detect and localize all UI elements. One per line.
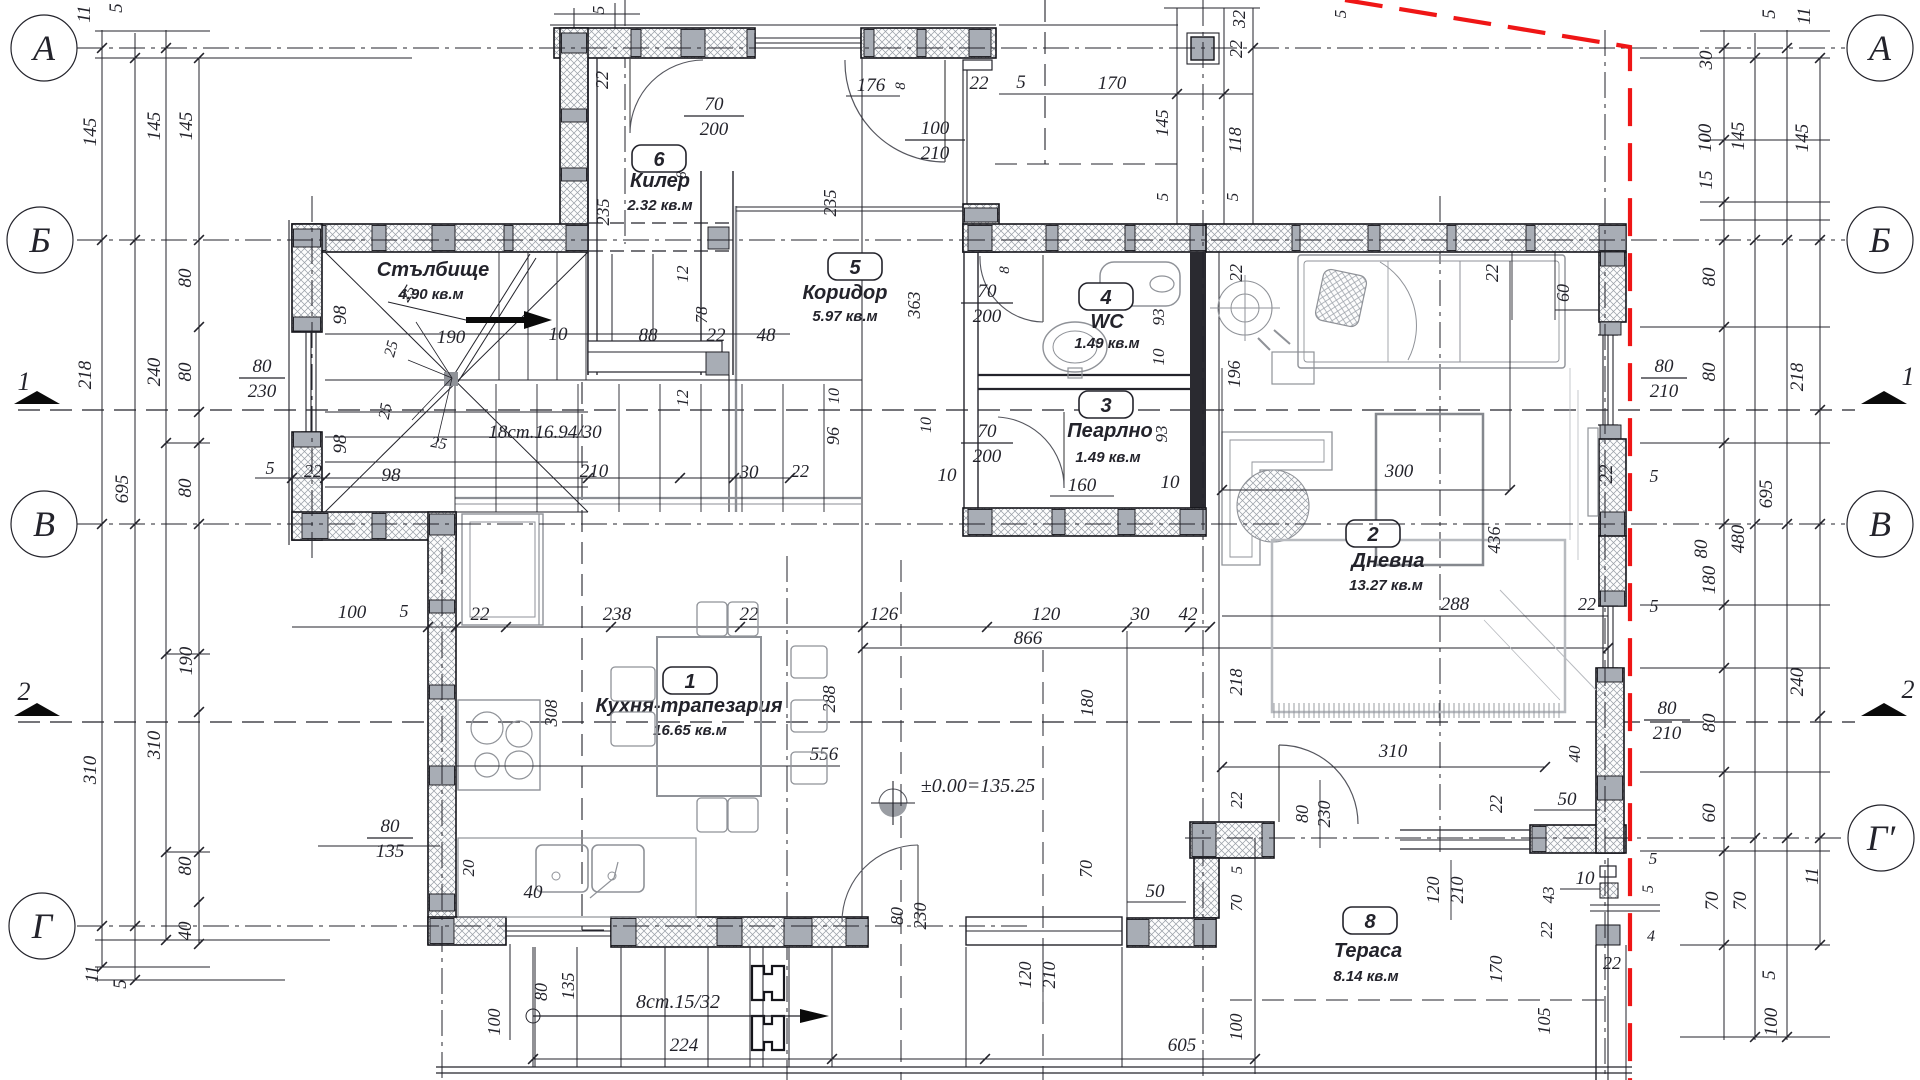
svg-text:196: 196: [1224, 361, 1244, 388]
svg-text:200: 200: [973, 306, 1002, 327]
svg-text:50: 50: [1558, 789, 1578, 810]
svg-text:310: 310: [80, 755, 101, 785]
right wall segment 3: [1599, 536, 1626, 606]
external stairs direction line: [533, 1015, 800, 1017]
svg-text:40: 40: [175, 921, 196, 941]
curtain lines right: [1569, 368, 1571, 540]
svg-text:5: 5: [1650, 596, 1659, 616]
svg-text:5: 5: [1759, 970, 1780, 980]
svg-text:98: 98: [330, 434, 351, 454]
svg-text:4: 4: [1647, 928, 1655, 945]
kitchen bottom window: [506, 925, 611, 927]
svg-text:436: 436: [1484, 527, 1504, 554]
svg-text:6: 6: [653, 149, 665, 171]
staircase stringer double diagonal: [452, 254, 530, 378]
svg-text:80: 80: [1655, 356, 1675, 377]
dim 866 line: [863, 647, 1608, 649]
svg-text:40: 40: [1565, 745, 1584, 763]
closet under Kiler: [588, 341, 722, 372]
svg-text:22: 22: [1482, 264, 1502, 282]
parapet thin wall terrace left: [966, 917, 1122, 945]
svg-text:60: 60: [1699, 803, 1720, 823]
right dimension chain lines: [1723, 30, 1725, 1040]
svg-text:363: 363: [904, 292, 924, 320]
svg-text:210: 210: [921, 143, 950, 164]
vertical axis x312 dash-dot: [311, 196, 313, 560]
svg-text:30: 30: [739, 462, 760, 483]
staircase treads horizontal: [325, 411, 588, 413]
svg-text:210: 210: [1653, 723, 1682, 744]
svg-text:22: 22: [1537, 921, 1556, 939]
svg-text:1: 1: [684, 671, 695, 693]
svg-text:22: 22: [1486, 795, 1506, 813]
svg-text:100: 100: [484, 1009, 504, 1036]
staircase center post: [444, 372, 458, 386]
right wall segment 1: [1599, 252, 1626, 322]
square table on rug: [1376, 414, 1483, 565]
corridor right open edge lines: [962, 70, 964, 208]
long-dash vertical x901: [900, 560, 902, 1080]
svg-text:70: 70: [1730, 891, 1751, 911]
svg-text:288: 288: [819, 686, 839, 713]
svg-text:5: 5: [589, 6, 608, 15]
svg-text:5: 5: [849, 257, 861, 279]
svg-text:В: В: [33, 504, 55, 544]
svg-text:218: 218: [1226, 669, 1246, 696]
svg-text:Коридор: Коридор: [803, 282, 888, 304]
tv board: [1588, 428, 1598, 516]
svg-text:22: 22: [740, 604, 760, 625]
dim 300 line: [1222, 489, 1510, 491]
long-dash vertical x1043: [1042, 650, 1044, 1080]
right margin horizontal connectors: [1700, 30, 1830, 32]
svg-text:80: 80: [1699, 713, 1720, 733]
tag terrace: [1343, 907, 1397, 934]
outer contour thin offset top: [550, 24, 996, 26]
external stairs treads: [534, 947, 536, 1067]
axis circle B left: [7, 207, 73, 273]
svg-text:5: 5: [1650, 466, 1659, 486]
svg-text:240: 240: [144, 357, 165, 386]
svg-text:15: 15: [1696, 171, 1717, 190]
downpipe fixtures: [1600, 866, 1616, 877]
svg-text:866: 866: [1014, 628, 1043, 649]
svg-text:22: 22: [1226, 264, 1246, 282]
svg-text:190: 190: [437, 327, 466, 348]
svg-text:145: 145: [1792, 124, 1813, 153]
stair small dim lines: [416, 322, 452, 378]
axis row G'(Г') dash-dot line: [1185, 837, 1845, 839]
right wall window 2: [1602, 606, 1604, 668]
svg-text:145: 145: [1152, 110, 1172, 137]
staircase left wall upper: [292, 224, 322, 332]
wall row V under staircase: [292, 512, 456, 540]
svg-text:556: 556: [810, 744, 839, 765]
svg-text:±0.00=135.25: ±0.00=135.25: [921, 775, 1035, 797]
kitchen bottom wall right: [611, 917, 868, 947]
svg-text:218: 218: [1787, 362, 1808, 391]
vertical axis x1605 dash-dot: [1604, 30, 1606, 1080]
porch overhang dashed top right: [1044, 0, 1046, 164]
svg-text:8: 8: [893, 82, 909, 90]
svg-text:42: 42: [1179, 604, 1199, 625]
svg-text:605: 605: [1168, 1035, 1197, 1056]
tag kitchen: [663, 667, 717, 694]
svg-text:30: 30: [1130, 604, 1151, 625]
section line 2 dashed: [18, 721, 1855, 723]
svg-text:238: 238: [603, 604, 632, 625]
svg-text:5.97 кв.м: 5.97 кв.м: [812, 308, 877, 325]
svg-text:210: 210: [1039, 962, 1059, 989]
svg-text:2: 2: [18, 677, 31, 706]
svg-text:10: 10: [826, 388, 843, 404]
svg-text:80: 80: [531, 983, 551, 1001]
outer contour thin offset left staircase: [288, 220, 290, 545]
gray void edge line corridor: [735, 206, 737, 512]
wall top row A right part: [861, 28, 996, 58]
svg-text:70: 70: [978, 421, 998, 442]
wall stub right of corridor top: [963, 204, 999, 252]
Kiler door leaf and arc 70/200: [629, 58, 631, 133]
axis circle V right: [1847, 491, 1913, 557]
axis circle A right: [1847, 15, 1913, 81]
svg-text:22: 22: [304, 461, 322, 481]
axis circle G' right: [1848, 805, 1914, 871]
staircase up arrow: [466, 311, 552, 329]
svg-text:48: 48: [757, 325, 777, 346]
left dimension chain lines: [101, 30, 103, 967]
svg-text:2: 2: [1902, 675, 1915, 704]
svg-text:25: 25: [376, 402, 396, 421]
svg-text:50: 50: [1146, 881, 1166, 902]
svg-text:22: 22: [791, 461, 809, 481]
stair dim line y478: [255, 477, 790, 479]
svg-text:3: 3: [1100, 395, 1111, 417]
axis row G(Г) dash-dot line: [77, 925, 1030, 927]
top margin small lines: [573, 8, 575, 28]
bed: [1298, 255, 1565, 368]
svg-text:105: 105: [1534, 1008, 1554, 1035]
svg-text:8: 8: [674, 171, 690, 179]
svg-text:100: 100: [1226, 1014, 1246, 1041]
right wall block a: [1600, 322, 1621, 335]
svg-text:20: 20: [459, 859, 478, 877]
terrace dashed boundary: [1230, 999, 1607, 1001]
section line 1 dashed: [18, 409, 1855, 411]
entrance door leaf+arc 100/210: [944, 60, 946, 162]
svg-text:80: 80: [175, 362, 196, 382]
svg-text:25: 25: [429, 434, 448, 454]
svg-text:70: 70: [1076, 860, 1096, 878]
svg-text:13.27 кв.м: 13.27 кв.м: [1349, 577, 1423, 594]
svg-text:12: 12: [673, 389, 692, 407]
svg-text:230: 230: [910, 903, 930, 930]
svg-text:93: 93: [1152, 426, 1171, 443]
fridge: [462, 514, 543, 625]
svg-text:Г′: Г′: [1866, 818, 1896, 858]
svg-text:135: 135: [376, 841, 405, 862]
svg-text:22: 22: [471, 604, 491, 625]
svg-text:310: 310: [1378, 741, 1408, 762]
svg-text:5: 5: [1016, 72, 1026, 93]
svg-text:Кухня-трапезария: Кухня-трапезария: [595, 695, 782, 717]
dim 556 line: [456, 765, 840, 767]
Kiler bottom partition dashed: [589, 222, 733, 224]
svg-text:5: 5: [1229, 866, 1246, 874]
svg-text:5: 5: [1759, 9, 1780, 19]
wall row B staircase top: [292, 224, 588, 252]
dining table: [657, 637, 761, 796]
svg-text:8: 8: [997, 266, 1013, 274]
svg-text:18ст.16.94/30: 18ст.16.94/30: [488, 422, 602, 443]
svg-text:118: 118: [1225, 127, 1245, 153]
svg-text:93: 93: [1149, 309, 1168, 326]
svg-text:Б: Б: [28, 220, 50, 260]
WC left partition: [963, 252, 965, 536]
svg-text:11: 11: [1794, 7, 1815, 25]
svg-text:70: 70: [978, 281, 998, 302]
window in top wall: [755, 37, 861, 39]
WC partition lower: [978, 374, 1190, 376]
svg-text:Стълбище: Стълбище: [377, 259, 489, 281]
svg-text:190: 190: [176, 646, 197, 675]
Kiler left partition: [587, 58, 589, 375]
external stairs rail posts: [752, 966, 784, 1000]
svg-text:210: 210: [580, 461, 609, 482]
svg-text:100: 100: [921, 118, 950, 139]
svg-text:8ст.15/32: 8ст.15/32: [636, 991, 720, 1013]
svg-text:А: А: [1867, 28, 1892, 68]
vertical axis x1440 dash-dot: [1439, 196, 1441, 856]
svg-text:80: 80: [887, 907, 907, 925]
axis circle B right: [1847, 207, 1913, 273]
level mark circle: [879, 789, 907, 817]
svg-text:32: 32: [1229, 10, 1249, 29]
axis circle A left: [11, 15, 77, 81]
svg-text:10: 10: [1576, 868, 1596, 889]
vertical axis x787 dash-dot: [786, 556, 788, 1080]
svg-text:180: 180: [1077, 690, 1097, 717]
svg-text:98: 98: [382, 465, 402, 486]
svg-text:145: 145: [1728, 122, 1749, 151]
dim 224 line: [533, 1058, 1255, 1060]
svg-text:224: 224: [670, 1035, 699, 1056]
svg-text:80: 80: [253, 356, 273, 377]
svg-text:5: 5: [1649, 849, 1658, 868]
svg-text:80: 80: [175, 478, 196, 498]
svg-text:200: 200: [973, 446, 1002, 467]
staircase left wall lower: [292, 432, 322, 540]
dim 310 line: [1222, 766, 1545, 768]
svg-text:70: 70: [1702, 891, 1723, 911]
vertical axis x625 dash-dot: [624, 0, 626, 244]
svg-text:100: 100: [338, 602, 367, 623]
section marker 1 left: [14, 391, 60, 404]
svg-text:480: 480: [1728, 524, 1749, 553]
svg-text:10: 10: [918, 417, 935, 433]
Pearlno door leaf and arc: [1063, 412, 1065, 488]
section marker 2 left: [14, 703, 60, 716]
svg-text:5: 5: [110, 979, 131, 989]
svg-text:Пеарлно: Пеарлно: [1067, 420, 1153, 442]
svg-text:96: 96: [823, 427, 843, 445]
axis row A dash-dot line: [77, 47, 1845, 49]
wall top row A left part: [554, 28, 755, 58]
svg-text:10: 10: [1161, 472, 1181, 493]
wall row B living room strip: [1206, 224, 1626, 252]
bed pillow: [1314, 268, 1368, 328]
svg-text:80: 80: [175, 856, 196, 876]
axis row B(Б) dash-dot line: [77, 239, 1845, 241]
svg-text:180: 180: [1699, 565, 1720, 594]
right wall window 1: [1602, 335, 1604, 425]
vertical axis x442 dash-dot: [441, 548, 443, 1080]
svg-text:5: 5: [1153, 193, 1172, 202]
kitchen bottom wall left: [428, 917, 506, 945]
bedside table: [1272, 352, 1314, 384]
svg-text:170: 170: [1486, 956, 1506, 983]
svg-text:5: 5: [1331, 10, 1350, 19]
svg-text:11: 11: [74, 5, 95, 23]
svg-text:10: 10: [938, 465, 958, 486]
kitchen door 80/230 to terrace: [917, 845, 919, 922]
svg-text:2: 2: [1366, 524, 1378, 546]
svg-text:А: А: [31, 28, 56, 68]
svg-text:135: 135: [558, 973, 578, 1000]
svg-text:В: В: [1869, 504, 1891, 544]
axis row V(В) dash-dot line: [77, 523, 1845, 525]
hall gray edge line: [455, 497, 862, 499]
svg-text:80: 80: [381, 816, 401, 837]
svg-text:Г: Г: [31, 906, 54, 946]
corridor top thin double line: [736, 206, 963, 208]
stove: [458, 700, 540, 790]
svg-text:43: 43: [1539, 887, 1558, 904]
wall left vertical of Kiler block: [560, 28, 588, 228]
svg-text:70: 70: [705, 94, 725, 115]
svg-text:10: 10: [1149, 348, 1168, 366]
stair dim line y334: [325, 333, 588, 335]
svg-text:1: 1: [1902, 362, 1915, 391]
svg-text:308: 308: [541, 700, 561, 728]
staircase window 80/230: [305, 332, 307, 432]
tag WC: [1079, 283, 1133, 310]
svg-text:4.90 кв.м: 4.90 кв.м: [397, 286, 463, 303]
svg-text:8.14 кв.м: 8.14 кв.м: [1333, 968, 1398, 985]
svg-text:Б: Б: [1868, 220, 1890, 260]
living room bottom-right corner wall: [1530, 825, 1626, 853]
svg-text:695: 695: [1756, 480, 1777, 509]
svg-text:300: 300: [1384, 461, 1414, 482]
svg-text:230: 230: [1314, 801, 1334, 828]
svg-text:30: 30: [1696, 50, 1717, 71]
svg-text:Дневна: Дневна: [1350, 550, 1425, 572]
svg-text:WC: WC: [1090, 311, 1124, 333]
svg-text:1.49 кв.м: 1.49 кв.м: [1075, 449, 1140, 466]
terrace right dim vertical: [1254, 838, 1256, 1074]
staircase landing lines: [325, 379, 862, 381]
svg-text:22: 22: [707, 325, 727, 346]
axis circle G left: [9, 893, 75, 959]
section marker 1 right: [1861, 391, 1907, 404]
svg-text:16.65 кв.м: 16.65 кв.м: [653, 722, 727, 739]
terrace door leaf and arc 80/230: [1278, 745, 1280, 822]
porch slab edge line: [999, 24, 1178, 26]
kitchen counter line: [538, 514, 540, 625]
rug fringe: [1273, 703, 1275, 718]
svg-text:60: 60: [1553, 284, 1573, 302]
svg-text:240: 240: [1787, 667, 1808, 696]
svg-text:695: 695: [112, 475, 133, 504]
svg-text:80: 80: [1699, 267, 1720, 287]
svg-text:70: 70: [1227, 894, 1246, 912]
svg-text:210: 210: [1447, 877, 1467, 904]
right margin ticks: [1719, 43, 1729, 53]
svg-text:80: 80: [1691, 539, 1712, 559]
svg-text:120: 120: [1423, 877, 1443, 904]
svg-text:78: 78: [692, 306, 711, 324]
svg-text:80: 80: [175, 268, 196, 288]
terrace corner wall bottom: [1127, 918, 1216, 947]
svg-text:11: 11: [1802, 867, 1823, 885]
tag corridor: [828, 253, 882, 280]
svg-text:88: 88: [639, 325, 659, 346]
svg-text:310: 310: [144, 730, 165, 760]
rug living room: [1272, 540, 1565, 712]
axis circle V left: [11, 491, 77, 557]
svg-text:120: 120: [1032, 604, 1061, 625]
terrace right edge wall below: [1595, 945, 1597, 1080]
svg-text:80: 80: [1292, 805, 1312, 823]
svg-text:1: 1: [18, 367, 31, 396]
Kiler corner column: [708, 227, 729, 249]
svg-text:2.32 кв.м: 2.32 кв.м: [626, 197, 692, 214]
svg-text:235: 235: [593, 199, 613, 226]
svg-text:230: 230: [248, 381, 277, 402]
svg-text:288: 288: [1441, 594, 1470, 615]
living room bottom wall window 120/210: [1400, 829, 1530, 831]
staircase walk line: [388, 302, 466, 320]
vertical axis x1203 dash-dot: [1202, 0, 1204, 1080]
svg-text:80: 80: [1658, 698, 1678, 719]
svg-text:22: 22: [592, 71, 612, 89]
section marker 2 right: [1861, 703, 1907, 716]
axis lines overdraw: [77, 47, 1845, 49]
bed blanket curve: [1380, 262, 1416, 360]
overhang dashed outline left of kitchen: [581, 382, 583, 930]
svg-text:210: 210: [1650, 381, 1679, 402]
kitchen dim line y627: [292, 626, 1210, 628]
svg-text:8: 8: [1364, 911, 1376, 933]
svg-text:145: 145: [80, 118, 101, 147]
svg-text:80: 80: [1699, 362, 1720, 382]
terrace corner wall vertical: [1194, 858, 1219, 918]
WC toilet: [1100, 262, 1180, 306]
svg-text:5: 5: [1640, 885, 1657, 893]
svg-text:22: 22: [970, 73, 990, 94]
tag Kiler: [632, 145, 686, 172]
left margin horizontal connectors: [95, 30, 210, 32]
svg-text:145: 145: [144, 112, 165, 141]
red dashed boundary line: [1345, 0, 1630, 1080]
terrace bottom edge double line: [436, 1066, 1632, 1068]
svg-text:145: 145: [176, 112, 197, 141]
WC sink: [1043, 322, 1107, 372]
kitchen left wall: [428, 512, 456, 944]
svg-text:218: 218: [75, 360, 96, 389]
black bar wall right of WC: [1190, 252, 1206, 510]
sink basins: [536, 845, 588, 892]
